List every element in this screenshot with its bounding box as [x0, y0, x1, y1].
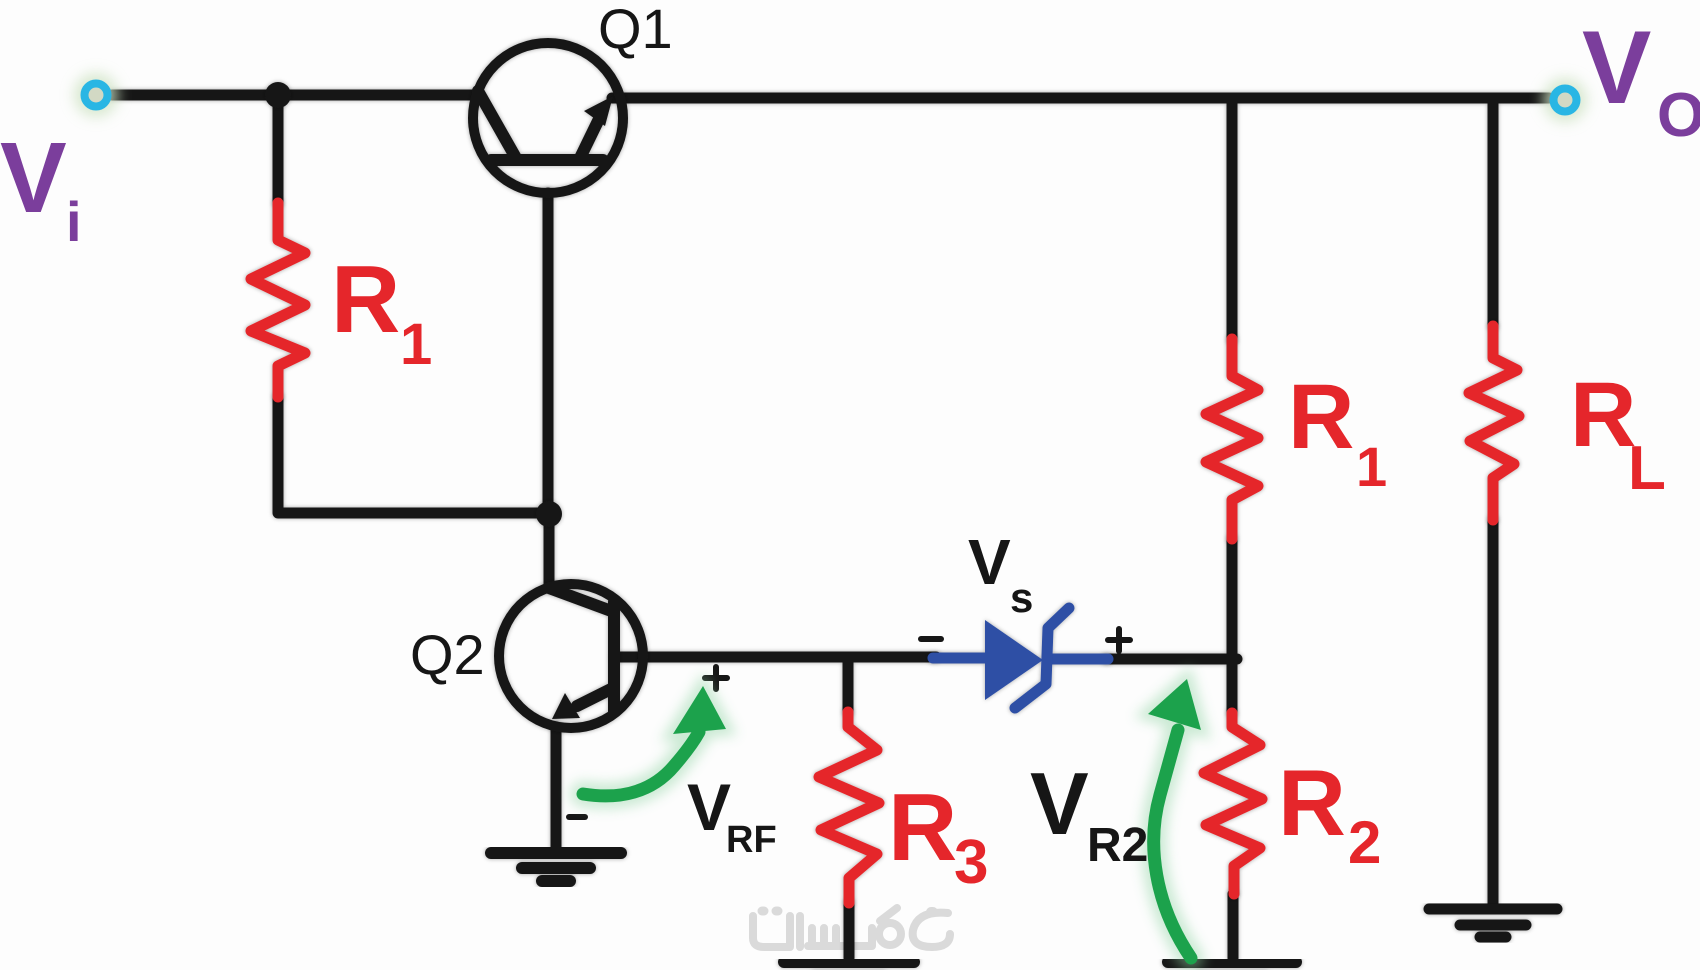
resistor R1 (left) — [251, 203, 305, 397]
Q2 emitter arrowhead — [552, 693, 580, 719]
node A junction dot — [265, 82, 291, 108]
svg-text:R: R — [1278, 750, 1346, 855]
svg-text:R: R — [1570, 364, 1636, 466]
resistor R3 — [819, 712, 879, 903]
svg-text:R: R — [331, 246, 400, 353]
svg-text:V: V — [1030, 754, 1089, 853]
svg-text:Q1: Q1 — [598, 0, 673, 60]
plus (VRF) — [705, 667, 727, 689]
svg-text:L: L — [1628, 434, 1666, 503]
Q2 body circle — [499, 584, 643, 728]
transistor Q1 — [473, 43, 623, 193]
terminal Vo — [1543, 78, 1587, 122]
svg-text:V: V — [0, 122, 67, 234]
svg-text:R: R — [1288, 366, 1354, 468]
svg-text:R2: R2 — [1087, 819, 1148, 872]
svg-text:RF: RF — [726, 819, 777, 861]
label R1 (left resistor) — [331, 246, 432, 377]
Q2 collector lead — [549, 588, 614, 612]
wire: rail branch down to RL top — [1488, 99, 1499, 326]
svg-text:s: s — [1010, 574, 1033, 621]
ground (R2) — [1168, 962, 1296, 970]
wire: R3 bottom to ground — [844, 903, 855, 958]
polarity marks — [569, 629, 1130, 817]
svg-text:3: 3 — [954, 828, 988, 897]
wire: zener cathode to node C — [1106, 654, 1237, 665]
zener anode lead (blue) — [933, 653, 985, 664]
green arrow VRF — [583, 686, 726, 796]
resistor R2 — [1204, 713, 1262, 894]
ground (R3) — [784, 962, 914, 970]
svg-text:V: V — [687, 770, 731, 844]
label Vs — [968, 526, 1033, 621]
label VR2 — [1030, 754, 1148, 872]
wire: Q1 emitter to Vo rail — [612, 93, 1549, 104]
zener cathode lead (blue) — [1047, 654, 1108, 665]
svg-text:i: i — [66, 190, 82, 253]
wire: Q2 base to zener anode — [616, 652, 936, 663]
wire: R2 bottom to ground — [1228, 894, 1239, 958]
plus (zener right) — [1108, 629, 1130, 651]
resistor RL — [1469, 326, 1519, 520]
label Vo — [1582, 10, 1700, 150]
ground (RL) — [1429, 909, 1557, 937]
ground (Q2 emitter) — [491, 853, 621, 881]
svg-text:V: V — [1582, 10, 1651, 126]
Q1 base bar — [491, 154, 603, 166]
minus (Q2 emitter) — [569, 814, 585, 820]
Q2 base bar — [608, 602, 620, 712]
node B junction dot — [536, 501, 562, 527]
Q1 body circle — [473, 43, 623, 193]
resistor R1 (right) — [1206, 339, 1258, 539]
Q1 collector lead — [478, 91, 516, 158]
wire: R1 left bottom, corner to node B — [278, 397, 549, 513]
label VRF — [687, 770, 777, 861]
terminal Vi — [74, 73, 118, 117]
svg-text:1: 1 — [1356, 435, 1387, 498]
wire: node B down to Q2 collector — [544, 514, 555, 588]
minus (zener left) — [921, 636, 941, 642]
label RL — [1570, 364, 1666, 503]
Q2 emitter lead — [577, 689, 611, 706]
label R1 (right resistor) — [1288, 366, 1387, 498]
wire: Q1 base down to node B — [543, 193, 554, 514]
svg-text:2: 2 — [1348, 809, 1381, 876]
wire: R3 branch down from base wire — [843, 657, 854, 712]
svg-text:1: 1 — [400, 312, 432, 377]
watermark — [753, 908, 950, 947]
wire: node A down to R1 left top — [273, 95, 284, 203]
svg-text:R: R — [888, 774, 957, 881]
wire: input Vi to Q1 — [112, 90, 476, 101]
svg-text:V: V — [968, 526, 1011, 598]
wire: R1 right bottom to node C — [1227, 539, 1238, 659]
main black wiring — [112, 95, 1549, 958]
wire: rail branch down to R1 right — [1227, 99, 1238, 340]
zener bent cathode bar — [1015, 608, 1069, 708]
svg-text:Q2: Q2 — [410, 623, 485, 686]
Q1 emitter lead — [580, 121, 598, 158]
label Vi — [0, 122, 82, 253]
Q1 emitter arrowhead — [584, 96, 613, 126]
green arrow VR2 — [1148, 679, 1201, 958]
wire: node C down to R2 top — [1227, 659, 1238, 713]
zener triangle — [985, 620, 1043, 700]
wire: RL bottom to ground — [1488, 520, 1499, 905]
label R3 — [888, 774, 988, 897]
label R2 — [1278, 750, 1381, 876]
wire: Q2 emitter down to ground — [551, 727, 562, 849]
transistor Q2 — [499, 584, 643, 728]
zener diode Vs — [933, 608, 1108, 708]
svg-text:O: O — [1657, 81, 1700, 150]
